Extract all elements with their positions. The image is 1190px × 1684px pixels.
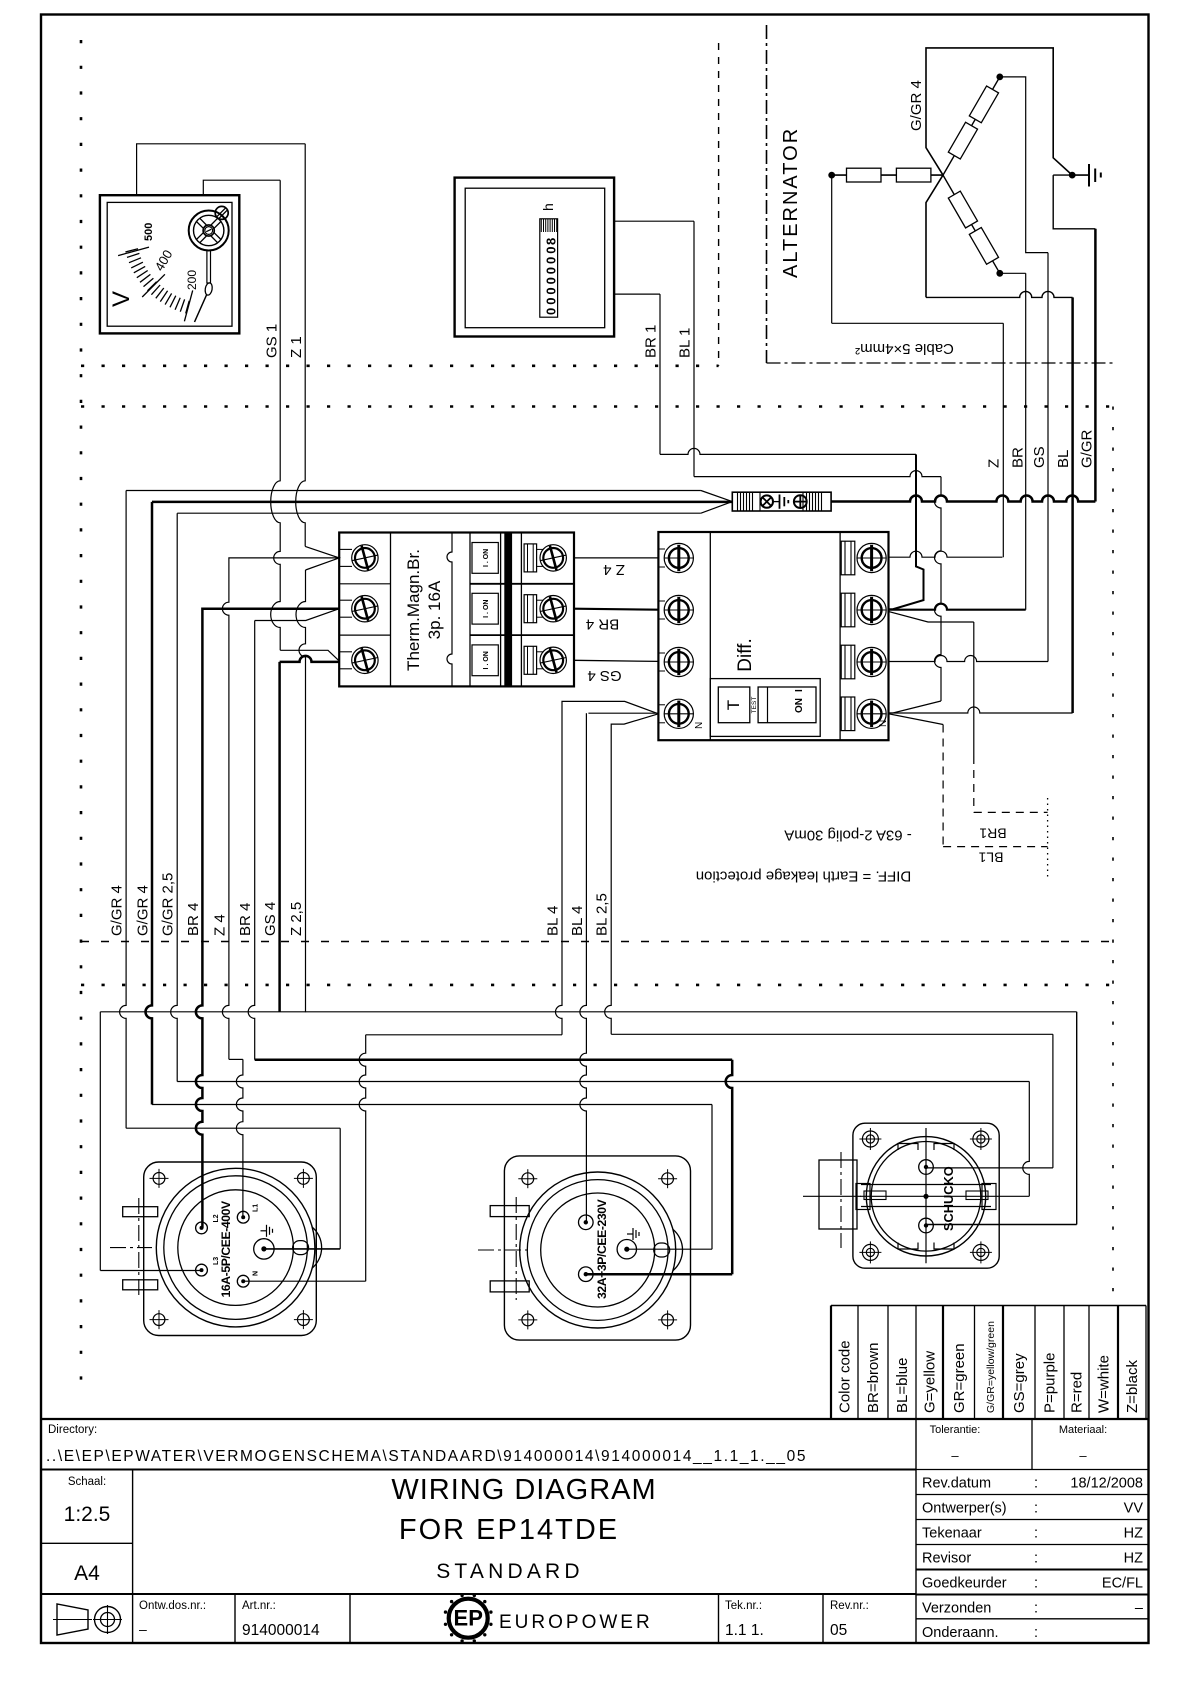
svg-text:0: 0 bbox=[544, 308, 559, 315]
svg-text:N: N bbox=[694, 722, 705, 729]
svg-text:0: 0 bbox=[544, 247, 559, 254]
svg-text:EP: EP bbox=[454, 1606, 483, 1631]
svg-text:I . ON: I . ON bbox=[483, 651, 490, 669]
svg-text:EUROPOWER: EUROPOWER bbox=[499, 1612, 653, 1633]
svg-text:3p. 16A: 3p. 16A bbox=[425, 580, 444, 639]
svg-text:0: 0 bbox=[544, 267, 559, 274]
svg-text:P=purple: P=purple bbox=[1042, 1353, 1059, 1413]
svg-text:BR=brown: BR=brown bbox=[865, 1343, 882, 1413]
svg-text::: : bbox=[1034, 1526, 1038, 1542]
svg-text:GS 4: GS 4 bbox=[262, 902, 279, 936]
svg-text:0: 0 bbox=[544, 287, 559, 294]
svg-text:WIRING DIAGRAM: WIRING DIAGRAM bbox=[391, 1474, 656, 1506]
svg-text:Materiaal:: Materiaal: bbox=[1059, 1424, 1107, 1436]
svg-text:–: – bbox=[1079, 1448, 1087, 1463]
svg-text:Z 4: Z 4 bbox=[211, 914, 228, 936]
svg-text:8: 8 bbox=[544, 238, 559, 245]
svg-text:G/GR=yellow/green: G/GR=yellow/green bbox=[985, 1321, 997, 1413]
svg-text:–: – bbox=[139, 1621, 147, 1637]
svg-text:1:2.5: 1:2.5 bbox=[64, 1503, 111, 1526]
svg-text:Color code: Color code bbox=[837, 1340, 854, 1413]
svg-text:05: 05 bbox=[830, 1622, 847, 1639]
svg-text:GS: GS bbox=[1031, 446, 1048, 468]
svg-text:G/GR: G/GR bbox=[1078, 429, 1095, 468]
svg-text:0: 0 bbox=[544, 257, 559, 264]
svg-text:16A-5P/CEE-400V: 16A-5P/CEE-400V bbox=[219, 1200, 233, 1298]
svg-text:..\E\EP\EPWATER\VERMOGENSCHEMA: ..\E\EP\EPWATER\VERMOGENSCHEMA\STANDAARD… bbox=[46, 1448, 807, 1465]
svg-text:ALTERNATOR: ALTERNATOR bbox=[780, 127, 802, 278]
svg-text:HZ: HZ bbox=[1124, 1551, 1143, 1567]
svg-text::: : bbox=[1034, 1551, 1038, 1567]
svg-text:Cable 5×4mm²: Cable 5×4mm² bbox=[855, 340, 954, 357]
svg-text:32A+3P/CEE-230V: 32A+3P/CEE-230V bbox=[595, 1198, 609, 1299]
svg-text:BR 4: BR 4 bbox=[237, 903, 254, 936]
svg-text:500: 500 bbox=[143, 223, 155, 241]
svg-text:- 63A 2-polig 30mA: - 63A 2-polig 30mA bbox=[784, 827, 912, 844]
svg-text:T: T bbox=[724, 700, 743, 710]
svg-text:I . ON: I . ON bbox=[483, 600, 490, 618]
svg-text:BL 1: BL 1 bbox=[677, 328, 694, 358]
svg-text:Rev.nr.:: Rev.nr.: bbox=[830, 1600, 869, 1612]
svg-text:Ontwerper(s): Ontwerper(s) bbox=[922, 1501, 1007, 1517]
svg-text:N: N bbox=[253, 1271, 260, 1276]
svg-text:L1: L1 bbox=[253, 1204, 260, 1212]
svg-text:Schaal:: Schaal: bbox=[68, 1476, 106, 1488]
svg-text:Rev.datum: Rev.datum bbox=[922, 1476, 991, 1492]
svg-text:h: h bbox=[540, 203, 556, 211]
svg-text:I: I bbox=[794, 689, 805, 692]
svg-text:G/GR 4: G/GR 4 bbox=[109, 885, 126, 936]
svg-text:V: V bbox=[108, 291, 135, 307]
svg-text:Diff.: Diff. bbox=[735, 638, 756, 671]
svg-text:BL=blue: BL=blue bbox=[894, 1358, 911, 1413]
svg-text:BL 4: BL 4 bbox=[545, 906, 562, 936]
svg-text:VV: VV bbox=[1124, 1501, 1144, 1517]
svg-text:TEST: TEST bbox=[751, 697, 758, 714]
svg-text:0: 0 bbox=[544, 298, 559, 305]
svg-text:–: – bbox=[1135, 1601, 1144, 1617]
svg-text:N: N bbox=[878, 720, 889, 727]
svg-text:BL1: BL1 bbox=[978, 850, 1003, 866]
svg-text:GS 4: GS 4 bbox=[587, 667, 621, 684]
svg-text:BR1: BR1 bbox=[979, 826, 1006, 842]
svg-text::: : bbox=[1034, 1625, 1038, 1641]
svg-text:BR 4: BR 4 bbox=[185, 903, 202, 936]
svg-text:Z 2,5: Z 2,5 bbox=[288, 902, 305, 936]
svg-text:BR 1: BR 1 bbox=[643, 325, 660, 358]
svg-text:BL 4: BL 4 bbox=[569, 906, 586, 936]
svg-text::: : bbox=[1034, 1501, 1038, 1517]
svg-text:HZ: HZ bbox=[1124, 1526, 1143, 1542]
svg-text:200: 200 bbox=[185, 270, 199, 290]
svg-text:ON: ON bbox=[794, 698, 805, 713]
svg-text:G/GR 2,5: G/GR 2,5 bbox=[160, 873, 177, 936]
svg-text:Goedkeurder: Goedkeurder bbox=[922, 1576, 1007, 1592]
svg-text:FOR EP14TDE: FOR EP14TDE bbox=[399, 1514, 619, 1546]
svg-text:STANDARD: STANDARD bbox=[436, 1560, 584, 1583]
svg-text:A4: A4 bbox=[74, 1562, 100, 1585]
svg-text:Art.nr.:: Art.nr.: bbox=[242, 1600, 276, 1612]
svg-text:W=white: W=white bbox=[1096, 1355, 1113, 1413]
svg-text:1.1 1.: 1.1 1. bbox=[725, 1622, 764, 1639]
svg-text:I . ON: I . ON bbox=[483, 549, 490, 567]
svg-text:R=red: R=red bbox=[1069, 1372, 1086, 1413]
svg-text:Ontw.dos.nr.:: Ontw.dos.nr.: bbox=[139, 1600, 206, 1612]
svg-text:BR: BR bbox=[1010, 447, 1027, 468]
svg-text:Z: Z bbox=[985, 459, 1002, 468]
svg-text:Onderaann.: Onderaann. bbox=[922, 1625, 999, 1641]
svg-text::: : bbox=[1034, 1476, 1038, 1492]
svg-text:Therm.Magn.Br.: Therm.Magn.Br. bbox=[404, 549, 423, 671]
svg-text:G/GR 4: G/GR 4 bbox=[908, 80, 925, 131]
svg-text:Tekenaar: Tekenaar bbox=[922, 1526, 982, 1542]
svg-text:0: 0 bbox=[544, 277, 559, 284]
svg-text:18/12/2008: 18/12/2008 bbox=[1070, 1476, 1143, 1492]
svg-text:G/GR 4: G/GR 4 bbox=[135, 885, 152, 936]
svg-text::: : bbox=[1034, 1576, 1038, 1592]
svg-text:BR 4: BR 4 bbox=[586, 616, 619, 633]
svg-text:Directory:: Directory: bbox=[48, 1424, 97, 1436]
svg-text:Z 4: Z 4 bbox=[603, 561, 625, 578]
svg-text:Verzonden: Verzonden bbox=[922, 1601, 991, 1617]
svg-text:DIFF. = Earth leakage protecti: DIFF. = Earth leakage protection bbox=[696, 868, 912, 885]
svg-text:BL 2,5: BL 2,5 bbox=[594, 893, 611, 936]
svg-text:Tek.nr.:: Tek.nr.: bbox=[725, 1600, 762, 1612]
svg-text:Tolerantie:: Tolerantie: bbox=[930, 1424, 981, 1436]
svg-text:G=yellow: G=yellow bbox=[922, 1351, 939, 1413]
svg-text::: : bbox=[1034, 1601, 1038, 1617]
svg-text:EC/FL: EC/FL bbox=[1102, 1576, 1143, 1592]
svg-text:GR=green: GR=green bbox=[951, 1343, 968, 1413]
svg-text:BL: BL bbox=[1055, 450, 1072, 468]
svg-text:–: – bbox=[951, 1448, 959, 1463]
svg-text:Z=black: Z=black bbox=[1124, 1360, 1141, 1413]
svg-text:Z 1: Z 1 bbox=[288, 336, 305, 358]
svg-text:Revisor: Revisor bbox=[922, 1551, 971, 1567]
svg-text:914000014: 914000014 bbox=[242, 1622, 320, 1639]
svg-text:GS=grey: GS=grey bbox=[1011, 1353, 1028, 1413]
svg-text:SCHUCKO: SCHUCKO bbox=[941, 1166, 956, 1231]
svg-text:GS 1: GS 1 bbox=[263, 324, 280, 358]
